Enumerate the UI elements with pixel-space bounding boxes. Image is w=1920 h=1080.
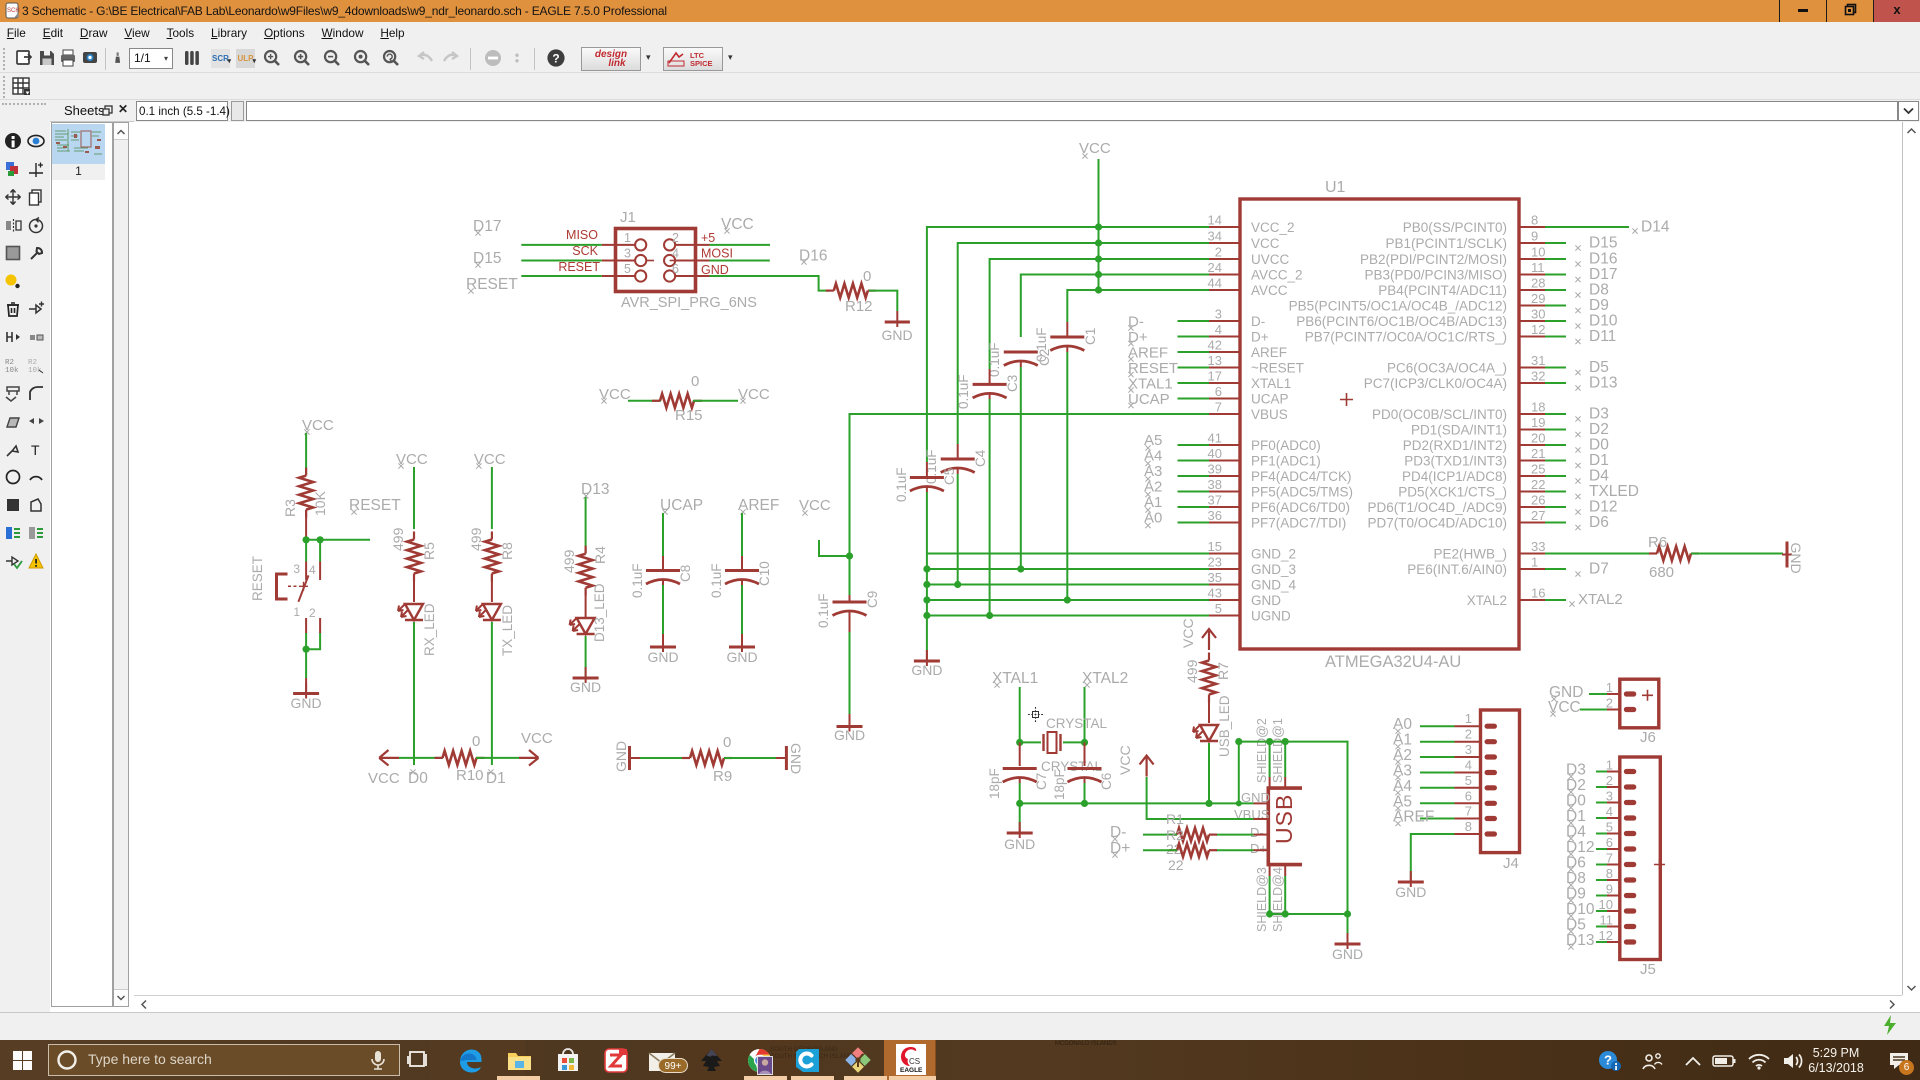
svg-text:GND: GND — [1395, 884, 1426, 900]
resistor R9 0 — [682, 734, 732, 785]
svg-text:0.1uF: 0.1uF — [709, 563, 724, 598]
svg-text:PB2(PDI/PCINT2/MOSI): PB2(PDI/PCINT2/MOSI) — [1360, 252, 1507, 267]
node XTAL1 crystal junction — [1016, 739, 1023, 746]
svg-text:PE6(INT.6/AIN0): PE6(INT.6/AIN0) — [1407, 562, 1507, 577]
svg-text:D15: D15 — [1589, 235, 1617, 252]
svg-text:35: 35 — [1208, 570, 1222, 585]
svg-text:R10: R10 — [456, 767, 484, 784]
wire RESET to J1 — [521, 275, 601, 277]
svg-text:499: 499 — [390, 527, 406, 551]
svg-text:A3: A3 — [1144, 463, 1162, 480]
taskbar — [0, 1040, 1920, 1080]
resistor R7 499 — [1184, 653, 1231, 703]
svg-text:7: 7 — [1606, 851, 1613, 866]
svg-text:41: 41 — [1208, 431, 1222, 446]
svg-text:38: 38 — [1208, 477, 1222, 492]
svg-text:RX_LED: RX_LED — [422, 603, 437, 656]
svg-text:C1: C1 — [1083, 328, 1098, 345]
wire GND bus rows to U1 pins 15/23/35/43/5 — [927, 554, 1209, 616]
wire GND to R9 — [640, 757, 690, 759]
sheets panel — [50, 100, 134, 122]
capacitor C3 0.1uF — [956, 369, 1020, 616]
wire VCC to R8 — [491, 467, 493, 529]
svg-text:17: 17 — [1208, 369, 1222, 384]
node C2 to GND bus — [1017, 565, 1024, 572]
net label XTAL2 at pin16 — [1545, 591, 1623, 608]
svg-text:28: 28 — [1531, 276, 1545, 291]
supply flag VCC above R8 — [474, 451, 506, 469]
svg-text:12: 12 — [1599, 928, 1613, 943]
svg-text:XTAL1: XTAL1 — [992, 670, 1038, 687]
wire VCC vertical bus — [1095, 159, 1102, 294]
svg-text:D1: D1 — [486, 770, 506, 787]
svg-text:A0: A0 — [1393, 716, 1412, 733]
svg-text:R15: R15 — [675, 407, 703, 424]
svg-text:D0: D0 — [1589, 437, 1609, 454]
wire J4 pin8 to GND — [1411, 834, 1455, 877]
svg-text:C2: C2 — [1037, 349, 1052, 366]
svg-text:D2: D2 — [1589, 421, 1609, 438]
connector J5 body — [1620, 757, 1665, 978]
pin label GND USB — [1241, 790, 1270, 805]
svg-text:J6: J6 — [1640, 729, 1656, 746]
svg-text:+5: +5 — [701, 231, 715, 245]
menu bar — [0, 22, 1920, 45]
wires and net labels J5 D3-D13 — [1566, 762, 1607, 950]
svg-text:AVCC_2: AVCC_2 — [1251, 268, 1303, 283]
svg-text:C9: C9 — [865, 591, 880, 608]
ground GND below C9 — [834, 714, 865, 743]
svg-text:MOSI: MOSI — [701, 247, 733, 261]
ground GND below D13_LED — [570, 667, 601, 695]
svg-text:32: 32 — [1531, 369, 1545, 384]
svg-text:C10: C10 — [757, 561, 772, 586]
svg-text:499: 499 — [468, 527, 484, 551]
wire shield top bus — [1239, 742, 1348, 914]
connector USB body — [1268, 788, 1302, 865]
Git icon — [844, 1046, 872, 1074]
capacitor C1 0.1uF — [1034, 322, 1098, 600]
capacitor C9 0.1uF — [816, 591, 880, 714]
svg-text:PD7(T0/OC4D/ADC10): PD7(T0/OC4D/ADC10) — [1367, 516, 1507, 531]
svg-text:A0: A0 — [1144, 510, 1162, 527]
svg-text:GND: GND — [881, 327, 912, 343]
svg-text:VCC: VCC — [521, 730, 553, 747]
svg-text:36: 36 — [1208, 508, 1222, 523]
svg-text:RESET: RESET — [1128, 360, 1178, 377]
svg-text:16: 16 — [1531, 586, 1545, 601]
svg-text:MISO: MISO — [566, 228, 598, 242]
svg-text:R2: R2 — [5, 359, 14, 367]
svg-text:C4: C4 — [973, 449, 988, 467]
svg-text:RESET: RESET — [250, 556, 265, 601]
svg-text:499: 499 — [561, 549, 577, 573]
svg-text:10K: 10K — [312, 490, 328, 516]
supply flag VCC left of R15 — [599, 386, 631, 404]
Cura icon — [794, 1047, 821, 1074]
svg-text:29: 29 — [1531, 291, 1545, 306]
svg-text:USB_LED: USB_LED — [1217, 695, 1232, 757]
connector J4 pins — [1455, 711, 1498, 836]
LED D13_LED — [570, 583, 607, 642]
wire USB VBUS — [1147, 777, 1269, 819]
wire XTAL1 down — [1019, 687, 1021, 742]
svg-text:PD1(SDA/INT1): PD1(SDA/INT1) — [1411, 423, 1507, 438]
svg-text:GND: GND — [788, 743, 804, 774]
tab row with coordinate display and command line — [0, 100, 1920, 122]
svg-text:D9: D9 — [1566, 886, 1586, 903]
svg-text:30: 30 — [1531, 307, 1545, 322]
svg-text:VCC: VCC — [1251, 236, 1280, 251]
svg-text:VCC: VCC — [1117, 745, 1133, 775]
svg-text:GND_4: GND_4 — [1251, 578, 1297, 593]
svg-text:D9: D9 — [1589, 297, 1609, 314]
wire J1 GND to R12 — [710, 276, 831, 291]
svg-text:PF5(ADC5/TMS): PF5(ADC5/TMS) — [1251, 485, 1353, 500]
USB shield pins bottom — [1255, 865, 1285, 932]
wire MISO to J1 — [521, 244, 601, 246]
svg-text:SHIELD@4: SHIELD@4 — [1271, 867, 1285, 932]
svg-text:GND: GND — [911, 662, 942, 678]
svg-text:D-: D- — [1251, 314, 1265, 329]
pin label +5 — [701, 231, 715, 245]
svg-text:A4: A4 — [1144, 448, 1162, 465]
capacitor C8 0.1uF — [630, 513, 693, 634]
svg-text:4: 4 — [1215, 322, 1222, 337]
resistor R3 10K — [282, 468, 328, 518]
resistor R15 0 — [652, 373, 703, 424]
svg-text:R12: R12 — [845, 298, 873, 315]
svg-text:USB: USB — [1271, 794, 1297, 844]
svg-text:40: 40 — [1208, 446, 1222, 461]
svg-text:U1: U1 — [1325, 179, 1346, 196]
wire USB D+ stub — [1216, 849, 1268, 851]
connector J1 AVR_SPI_PRG_6NS body — [616, 209, 757, 311]
svg-text:15: 15 — [1208, 539, 1222, 554]
svg-text:GND: GND — [613, 741, 629, 772]
resistor R10 0 — [435, 733, 485, 784]
toolbar row 2 — [0, 73, 1920, 100]
svg-text:R5: R5 — [421, 542, 437, 560]
ground GND below C8 — [647, 634, 678, 665]
svg-text:7: 7 — [1215, 400, 1222, 415]
svg-text:6: 6 — [1465, 788, 1472, 803]
wire GND bus vertical — [923, 554, 930, 651]
U1 left pins with numbers and names — [1208, 213, 1353, 624]
svg-text:D16: D16 — [1589, 251, 1617, 268]
wire R5 to RX_LED — [413, 574, 415, 602]
svg-text:18pF: 18pF — [1052, 769, 1067, 800]
net label D16 — [799, 248, 827, 265]
svg-text:1: 1 — [293, 605, 300, 619]
svg-text:27: 27 — [1531, 508, 1545, 523]
svg-text:0.1uF: 0.1uF — [956, 374, 971, 409]
svg-text:31: 31 — [1531, 353, 1545, 368]
ground GND at J4 — [1395, 871, 1426, 900]
wire switch to GND — [305, 649, 307, 678]
svg-text:XTAL2: XTAL2 — [1082, 670, 1128, 687]
svg-text:R4: R4 — [592, 546, 608, 564]
node C1 to GND bus — [1064, 596, 1071, 603]
svg-text:42: 42 — [1208, 338, 1222, 353]
svg-text:D8: D8 — [1589, 282, 1609, 299]
svg-text:ATMEGA32U4-AU: ATMEGA32U4-AU — [1325, 653, 1461, 671]
wire XTAL2 down — [1084, 687, 1086, 742]
wire VCC to R10 — [399, 757, 443, 759]
svg-text:PB7(PCINT7/OC0A/OC1C/RTS_): PB7(PCINT7/OC0A/OC1C/RTS_) — [1305, 330, 1507, 345]
svg-text:PF0(ADC0): PF0(ADC0) — [1251, 438, 1321, 453]
svg-text:RESET: RESET — [349, 497, 401, 514]
svg-text:R7: R7 — [1215, 662, 1231, 680]
svg-text:C6: C6 — [1099, 773, 1114, 790]
wire TX_LED to D1 — [491, 622, 493, 765]
svg-text:PD3(TXD1/INT3): PD3(TXD1/INT3) — [1404, 454, 1507, 469]
ground GND at R12 — [881, 311, 912, 343]
supply flag VCC above R3 — [302, 417, 334, 435]
svg-text:GND_3: GND_3 — [1251, 562, 1296, 577]
svg-text:18: 18 — [1531, 400, 1545, 415]
net label D17 left of J1 — [473, 218, 501, 236]
svg-text:AREF: AREF — [1128, 345, 1168, 362]
capacitor C2 0.1uF — [987, 342, 1052, 569]
svg-text:2: 2 — [309, 606, 316, 620]
svg-text:A4: A4 — [1393, 778, 1412, 795]
svg-text:R2: R2 — [1166, 827, 1184, 843]
net label RESET left of J1 — [466, 276, 518, 294]
net label D+ USB side — [1110, 840, 1130, 858]
resistor R12 0 — [826, 268, 876, 315]
pin label VBUS USB — [1234, 807, 1270, 822]
svg-text:D12: D12 — [1589, 499, 1617, 516]
svg-text:3: 3 — [624, 247, 631, 261]
wire R12 to GND — [869, 291, 897, 311]
svg-text:9: 9 — [1606, 882, 1613, 897]
svg-text:PD2(RXD1/INT2): PD2(RXD1/INT2) — [1403, 438, 1507, 453]
svg-text:UCAP: UCAP — [1251, 392, 1289, 407]
svg-text:GND: GND — [647, 649, 678, 665]
svg-text:VCC: VCC — [368, 770, 400, 787]
node shield bottom junctions — [1266, 910, 1351, 917]
USB shield pins top — [1255, 718, 1285, 788]
net label D0 — [408, 769, 428, 787]
svg-text:0.1uF: 0.1uF — [630, 563, 645, 598]
svg-text:3: 3 — [293, 562, 300, 576]
cursor crosshair — [1028, 707, 1043, 722]
net label VCC at J6 — [1548, 699, 1607, 717]
svg-text:CRYSTAL: CRYSTAL — [1041, 759, 1103, 774]
wire R15 to VCC — [693, 400, 738, 402]
svg-text:XTAL1: XTAL1 — [1251, 376, 1291, 391]
net label UCAP above C8 — [660, 497, 703, 515]
wire J1 MOSI to D16 — [710, 260, 770, 262]
Mail icon with badge — [648, 1050, 676, 1074]
pin label MISO — [566, 228, 598, 242]
LED TX_LED — [476, 604, 515, 656]
wire R3 to switch — [305, 510, 307, 540]
svg-text:D3: D3 — [1589, 406, 1609, 423]
svg-text:23: 23 — [1208, 555, 1222, 570]
svg-text:D4: D4 — [1589, 468, 1609, 485]
svg-text:D+: D+ — [1251, 330, 1269, 345]
pin label GND — [701, 263, 729, 277]
tray icons — [1597, 1050, 1623, 1072]
svg-text:11: 11 — [1531, 260, 1545, 275]
svg-text:PD0(OC0B/SCL/INT0): PD0(OC0B/SCL/INT0) — [1372, 407, 1507, 422]
ground GND shield — [1332, 933, 1363, 962]
svg-text:2: 2 — [1465, 727, 1472, 742]
svg-text:6: 6 — [1215, 384, 1222, 399]
svg-text:6: 6 — [1606, 835, 1613, 850]
wire D13 to R4 — [585, 497, 587, 553]
svg-text:T: T — [31, 442, 40, 458]
svg-text:43: 43 — [1208, 586, 1222, 601]
svg-text:D0: D0 — [408, 770, 428, 787]
svg-text:SHIELD@2: SHIELD@2 — [1255, 718, 1269, 783]
svg-text:XTAL2: XTAL2 — [1578, 591, 1623, 608]
wire USB D- stub — [1216, 834, 1268, 836]
pin label RESET — [558, 260, 600, 274]
connector J5 pins — [1599, 758, 1637, 945]
svg-text:D8: D8 — [1566, 870, 1586, 887]
wire R7 to USB_LED — [1208, 695, 1210, 723]
svg-text:D3: D3 — [1566, 762, 1586, 779]
toolbar row 1 — [0, 45, 1920, 73]
U1 right pins with numbers and names — [1289, 213, 1546, 609]
svg-text:GND_2: GND_2 — [1251, 547, 1296, 562]
svg-text:PB5(PCINT5/OC1A/OC4B_/ADC12): PB5(PCINT5/OC1A/OC4B_/ADC12) — [1289, 299, 1507, 314]
wire R4 to D13_LED — [585, 588, 587, 617]
svg-text:10: 10 — [1599, 897, 1613, 912]
wire VBUS pin7 to C9 branch — [850, 414, 1210, 595]
resistor R5 499 — [390, 527, 437, 581]
svg-text:UVCC: UVCC — [1251, 252, 1290, 267]
connector J6 body — [1620, 679, 1659, 746]
svg-text:D11: D11 — [1589, 328, 1616, 345]
svg-text:SHIELD@3: SHIELD@3 — [1255, 867, 1269, 932]
svg-text:4: 4 — [1606, 804, 1613, 819]
wire crystal left — [1020, 741, 1041, 743]
svg-text:D1: D1 — [1566, 808, 1586, 825]
wire crystal GND bus — [1020, 802, 1254, 804]
svg-text:25: 25 — [1531, 462, 1545, 477]
svg-text:7: 7 — [1465, 804, 1472, 819]
svg-text:0: 0 — [472, 733, 480, 750]
svg-text:EAGLE: EAGLE — [900, 1067, 923, 1074]
wire UVCC row to C3 drop — [990, 259, 1209, 369]
net label AREF above C10 — [738, 497, 779, 515]
svg-text:4: 4 — [672, 247, 679, 261]
svg-text:R6: R6 — [1648, 534, 1667, 551]
wire VCC_2 row to C5 drop — [927, 227, 1209, 462]
svg-text:GND: GND — [701, 263, 729, 277]
svg-text:19: 19 — [1531, 415, 1545, 430]
pin label SCK — [572, 244, 598, 258]
wire J1 +5 to VCC — [710, 244, 771, 246]
svg-text:XTAL1: XTAL1 — [1128, 376, 1173, 393]
resistor R4 499 — [561, 546, 608, 596]
svg-text:GND: GND — [1004, 836, 1035, 852]
svg-text:A5: A5 — [1144, 432, 1162, 449]
wire shield drop to GND bus — [1236, 742, 1242, 807]
svg-text:SHIELD@1: SHIELD@1 — [1271, 718, 1285, 783]
wire AVCC row to C1 drop — [1067, 290, 1209, 322]
net label XTAL2 at crystal — [1082, 670, 1128, 688]
title bar — [0, 0, 1920, 22]
svg-text:D+: D+ — [1128, 329, 1148, 346]
svg-text:J4: J4 — [1503, 855, 1519, 872]
svg-text:3: 3 — [1215, 307, 1222, 322]
svg-text:5: 5 — [1465, 773, 1472, 788]
wires and net labels left of U1 (D-,D+,AREF,RESET,XTAL1,UCAP) — [1128, 314, 1209, 409]
svg-text:C5: C5 — [942, 468, 957, 485]
svg-text:3: 3 — [1606, 789, 1613, 804]
svg-text:4: 4 — [1465, 758, 1472, 773]
wire RX_LED to D0 — [413, 622, 415, 765]
pin label D- USB — [1250, 825, 1264, 840]
svg-text:D6: D6 — [1589, 514, 1609, 531]
sheet thumbnail — [52, 124, 105, 164]
wire VCC row to C4 drop — [958, 243, 1209, 444]
svg-text:2: 2 — [1215, 245, 1222, 260]
svg-text:PD6(T1/OC4D_/ADC9): PD6(T1/OC4D_/ADC9) — [1367, 500, 1507, 515]
LED USB_LED — [1193, 695, 1232, 757]
svg-text:2: 2 — [672, 231, 679, 245]
wire pin33 to R6 — [1545, 553, 1656, 555]
status bar — [0, 1012, 1920, 1040]
switch RESET pushbutton — [250, 540, 320, 649]
File Explorer icon — [506, 1047, 533, 1074]
resistor R6 680 — [1648, 534, 1783, 581]
supply flag VCC left of R10 — [368, 750, 400, 787]
svg-text:2: 2 — [1606, 773, 1613, 788]
svg-text:5: 5 — [1215, 601, 1222, 616]
svg-text:1: 1 — [1531, 555, 1538, 570]
supply flag VCC top — [1079, 140, 1111, 159]
svg-text:D14: D14 — [1641, 219, 1670, 236]
svg-text:6: 6 — [672, 262, 679, 276]
horizontal scrollbar — [134, 995, 1902, 1012]
Edge icon — [457, 1047, 484, 1074]
svg-text:34: 34 — [1208, 229, 1222, 244]
svg-text:VCC: VCC — [1180, 618, 1196, 648]
svg-text:1: 1 — [1465, 711, 1472, 726]
node RESET junction 1 — [303, 536, 310, 543]
ground GND below C10 — [726, 634, 757, 665]
svg-text:D17: D17 — [1589, 266, 1617, 283]
svg-text:1: 1 — [624, 231, 631, 245]
svg-text:GND: GND — [1788, 543, 1804, 574]
svg-text:D13: D13 — [1589, 375, 1617, 392]
node shield top junctions — [1235, 738, 1289, 745]
net label D13 above R4 — [581, 481, 609, 499]
ground GND below bus — [911, 650, 942, 678]
svg-text:?: ? — [552, 52, 559, 66]
wire VCC to R5 — [413, 467, 415, 529]
svg-text:UCAP: UCAP — [660, 497, 703, 514]
supply flag VCC right of R15 — [738, 386, 770, 404]
svg-text:TX_LED: TX_LED — [500, 605, 515, 656]
wire R10 to VCC — [476, 757, 519, 759]
svg-text:SCH: SCH — [7, 8, 20, 14]
connector J4 body — [1481, 710, 1520, 872]
svg-text:1: 1 — [1606, 680, 1613, 695]
supply flag VCC at VBUS — [1117, 745, 1154, 776]
capacitor C10 0.1uF — [709, 513, 772, 634]
svg-text:5: 5 — [624, 262, 631, 276]
Chrome icon with profile — [746, 1047, 773, 1074]
ground GND right of R6 — [1782, 542, 1804, 574]
wires and net labels J4 A0-AREF — [1393, 716, 1455, 826]
